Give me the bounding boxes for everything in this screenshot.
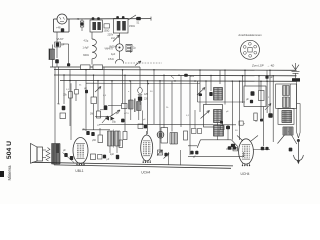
svg-text:50µ: 50µ (112, 122, 117, 124)
svg-text:300Ω: 300Ω (83, 54, 89, 57)
svg-text:VM4/70: VM4/70 (105, 48, 114, 51)
svg-text:4µF: 4µF (111, 53, 116, 56)
svg-text:220V: 220V (108, 34, 114, 37)
svg-text:2µF: 2µF (110, 154, 115, 156)
svg-text:VL67: VL67 (57, 37, 64, 41)
svg-text:1M: 1M (90, 114, 93, 116)
svg-text:Zum LSP: Zum LSP (251, 64, 264, 68)
svg-text:504 U: 504 U (6, 141, 13, 159)
svg-text:→ 4Ω: → 4Ω (267, 64, 275, 68)
svg-text:Anschlussklemmen: Anschlussklemmen (238, 33, 262, 37)
svg-text:UCH4: UCH4 (241, 172, 250, 176)
svg-text:400: 400 (190, 75, 195, 78)
svg-text:47kΩ: 47kΩ (108, 58, 114, 61)
svg-text:UCH4: UCH4 (141, 171, 150, 175)
svg-text:100Ω: 100Ω (104, 30, 110, 33)
svg-text:Minerva: Minerva (7, 165, 12, 181)
svg-text:4,5µ: 4,5µ (84, 40, 89, 43)
svg-text:+48: +48 (56, 26, 61, 30)
svg-text:UBL1: UBL1 (75, 169, 83, 173)
svg-text:4711: 4711 (124, 113, 129, 115)
svg-text:1,4µF: 1,4µF (83, 47, 90, 50)
svg-text:150Ω: 150Ω (129, 25, 135, 28)
